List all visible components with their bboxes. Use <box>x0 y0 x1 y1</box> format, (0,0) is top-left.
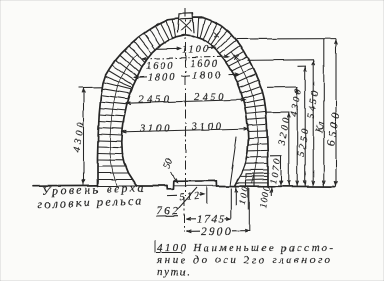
extension line 3200 level <box>265 111 290 113</box>
note: rail head level (2 lines) <box>37 180 145 211</box>
tunnel lining outer face left <box>98 18 178 186</box>
svg-text:1745: 1745 <box>197 214 225 226</box>
stone x-mark right haunch <box>235 55 240 60</box>
dim 100 ticks <box>235 187 237 206</box>
curb / ledge top <box>174 181 217 186</box>
dim 1745 <box>186 218 231 221</box>
svg-text:1800: 1800 <box>148 73 176 84</box>
dim 1800 line <box>134 74 239 77</box>
rail-head level line left outside <box>33 184 97 186</box>
underline 4100 <box>155 240 183 253</box>
drainage trough <box>167 181 174 189</box>
extension tick 1070 level <box>270 155 282 157</box>
line under curb <box>175 185 217 187</box>
svg-text:762: 762 <box>156 206 178 218</box>
dim 2450 line <box>126 100 245 104</box>
tunnel lining outer face right <box>194 18 269 186</box>
dim 1070 vertical <box>280 156 282 186</box>
tunnel lining inner face (intrados) <box>122 35 249 186</box>
dim 1600 dash-dot line <box>142 57 229 59</box>
longitudinal mid joint right wall <box>232 52 258 183</box>
svg-text:1800: 1800 <box>192 71 221 82</box>
extension line to arch at 4300 level <box>79 86 102 88</box>
dim 5450 vertical <box>312 60 314 186</box>
stone x-mark upper right <box>214 33 219 38</box>
dim 1000 ticks <box>271 187 273 196</box>
svg-text:1600: 1600 <box>146 61 174 72</box>
svg-text:пути.: пути. <box>157 266 190 278</box>
dim 5250 vertical <box>304 66 306 186</box>
extension line 5450 level <box>248 59 314 62</box>
right wall footing block <box>246 173 267 186</box>
keystone <box>178 13 195 32</box>
dim 4300 left vertical <box>83 88 85 185</box>
longitudinal mid joint left wall <box>110 54 137 186</box>
dim 3200 vertical <box>288 112 290 186</box>
inner face auxiliary line right wall base <box>230 137 237 186</box>
svg-text:яние до оси 2го главного: яние до оси 2го главного <box>156 254 331 266</box>
dim 1100 line <box>156 47 181 49</box>
dim 512 marks <box>167 195 205 196</box>
dim Kl vertical <box>323 39 325 186</box>
masonry joint ticks <box>98 18 269 186</box>
floor line inside tunnel left <box>137 185 167 187</box>
floor line centre-right to right edge <box>217 185 335 188</box>
dim 2900 <box>186 230 249 233</box>
dim 50 leader <box>170 172 178 183</box>
svg-text:4100 Наименьшее рассто-: 4100 Наименьшее рассто- <box>157 242 333 254</box>
extension line 4300 level <box>267 86 298 88</box>
note: 4100 minimal distance to 2nd track axis (3 lines) <box>156 242 333 278</box>
dim 4300 right vertical <box>296 87 298 186</box>
svg-text:512: 512 <box>179 191 200 203</box>
leader 762 <box>156 188 197 217</box>
dim 3100 line <box>123 129 249 132</box>
extension tick 5250 level <box>298 65 307 67</box>
track centerline (dash-dot) <box>184 8 186 232</box>
svg-text:1100: 1100 <box>182 45 209 56</box>
svg-text:1600: 1600 <box>190 59 218 70</box>
extension line top (6500 level) <box>237 38 337 40</box>
dim 6500 vertical <box>335 39 337 187</box>
